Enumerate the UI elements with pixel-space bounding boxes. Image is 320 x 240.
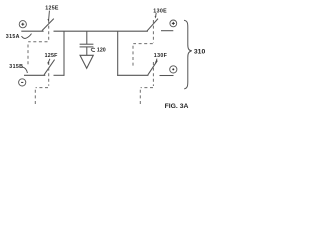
svg-text:125E: 125E xyxy=(45,6,59,12)
svg-text:315B: 315B xyxy=(9,64,23,70)
svg-text:120: 120 xyxy=(97,48,106,54)
svg-text:130E: 130E xyxy=(153,9,167,15)
svg-text:130F: 130F xyxy=(154,53,168,59)
svg-text:125F: 125F xyxy=(45,53,59,59)
svg-text:315A: 315A xyxy=(6,34,20,40)
svg-text:310: 310 xyxy=(194,49,206,56)
svg-text:FIG. 3A: FIG. 3A xyxy=(165,103,189,110)
